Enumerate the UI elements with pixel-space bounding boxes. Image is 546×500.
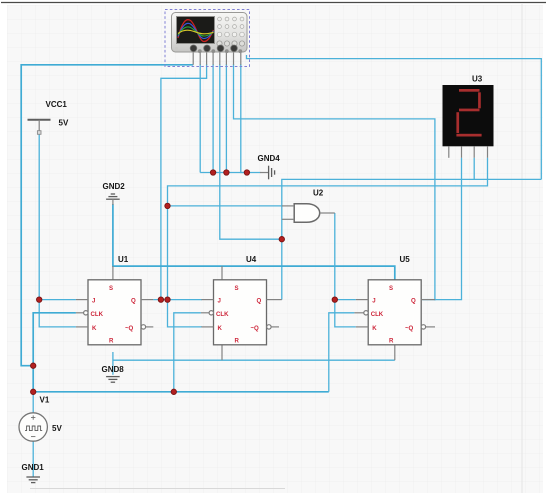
wire clock rail	[33, 391, 329, 393]
node U1 Q feed tap	[165, 297, 170, 302]
and gate U2	[282, 189, 335, 223]
wire U4 Q riser and line to U3 pin3	[282, 179, 542, 299]
power VCC1	[28, 100, 69, 134]
svg-text:5V: 5V	[59, 119, 69, 128]
node U2 input A tap	[165, 203, 170, 208]
wire U1 S stub	[112, 266, 114, 280]
svg-text:GND8: GND8	[102, 365, 125, 374]
wire U1 Q riser and line to U3 pin4	[168, 158, 488, 300]
wire U2 input A from node	[168, 205, 283, 207]
wire V1 bottom to GND1	[32, 442, 34, 477]
ground GND8	[102, 365, 125, 382]
wire U1 Q to U4 J	[153, 299, 202, 301]
ground GND4	[258, 154, 281, 179]
svg-text:J: J	[218, 298, 221, 305]
wire U4 S stub	[221, 266, 223, 280]
svg-text:U3: U3	[472, 75, 483, 84]
wire U2 output to U5 J	[335, 213, 356, 300]
wire S preset line from GND2 to U5 S	[113, 204, 395, 280]
wire scope pin8 down to ground row	[241, 64, 247, 173]
wire scope pin9 right side loop to QB line	[247, 55, 542, 179]
wire scope pin4 down to ground row	[212, 64, 214, 173]
wire scope pin1 to left border loop	[21, 65, 193, 366]
svg-text:U4: U4	[246, 255, 257, 264]
svg-text:V1: V1	[40, 396, 50, 405]
wire scope pin2 down to ground row	[199, 64, 201, 173]
svg-text:~Q: ~Q	[251, 325, 260, 332]
node U2 out to U5 J	[332, 297, 337, 302]
wire scope pin3 to U1 Q node	[161, 64, 207, 300]
wire U5 CLK riser	[329, 313, 355, 392]
svg-text:CLK: CLK	[91, 311, 104, 318]
wire U1 R down to GND8	[112, 352, 114, 375]
wire U5 J node down to U5 K	[335, 300, 356, 327]
svg-text:~Q: ~Q	[125, 325, 134, 332]
ground GND2	[103, 182, 126, 205]
wire ground row to GND4	[200, 172, 260, 174]
clock source V1	[19, 396, 62, 442]
wire U5 Q to riser	[422, 299, 436, 301]
wire scope pin5 to U4 Q riser	[220, 64, 282, 239]
svg-text:J: J	[372, 298, 375, 305]
ground GND1	[22, 463, 45, 483]
wire U5 R stub	[394, 345, 396, 360]
node U4 Q to scope	[279, 237, 284, 242]
svg-text:R: R	[389, 338, 394, 345]
svg-text:CLK: CLK	[216, 311, 229, 318]
node U4 CLK rail tap	[171, 389, 176, 394]
svg-text:J: J	[92, 298, 95, 305]
svg-text:U1: U1	[118, 255, 129, 264]
svg-text:K: K	[218, 325, 223, 332]
svg-text:U5: U5	[400, 255, 411, 264]
node VCC to U1 J	[37, 297, 42, 302]
svg-text:K: K	[372, 325, 377, 332]
svg-text:Q: Q	[257, 298, 262, 305]
node U1 Q scope tap	[158, 297, 163, 302]
flip-flop U5	[354, 255, 435, 345]
svg-text:R: R	[235, 338, 240, 345]
wire scope pin7 to U5 Q riser	[234, 64, 435, 300]
seven segment display U3	[443, 75, 494, 158]
wire V1 riser to U1 CLK	[33, 313, 76, 392]
svg-text:S: S	[389, 285, 393, 292]
wire V1 top stub	[32, 392, 34, 413]
node V1 clock rail	[31, 389, 36, 394]
svg-text:~Q: ~Q	[405, 325, 414, 332]
svg-text:Q: Q	[131, 298, 136, 305]
svg-text:S: S	[109, 285, 113, 292]
flip-flop U4	[201, 255, 282, 345]
svg-text:5V: 5V	[52, 424, 62, 433]
svg-text:GND1: GND1	[22, 463, 45, 472]
wire scope pin6 down to ground row	[225, 64, 227, 173]
wire U3 pin2 riser to U5 Q line	[434, 158, 462, 300]
svg-text:K: K	[92, 325, 97, 332]
wire node A down to U4 K	[168, 300, 203, 327]
svg-text:GND4: GND4	[258, 154, 281, 163]
svg-text:GND2: GND2	[103, 182, 126, 191]
oscilloscope XSC1	[165, 10, 250, 67]
node border loop join	[31, 363, 36, 368]
svg-text:VCC1: VCC1	[46, 100, 68, 109]
svg-text:Q: Q	[411, 298, 416, 305]
node scope gnd 1	[210, 170, 215, 175]
wire reset line R	[113, 359, 395, 361]
svg-text:S: S	[235, 285, 239, 292]
wire U4 CLK riser	[174, 313, 201, 392]
node scope gnd 2	[224, 170, 229, 175]
wire U3 pin3 riser	[473, 158, 475, 180]
wire VCC riser to U1 J and K	[39, 134, 76, 327]
flip-flop U1	[76, 255, 153, 345]
svg-text:R: R	[109, 338, 114, 345]
wire U4 R stub	[221, 345, 223, 360]
svg-text:CLK: CLK	[371, 311, 384, 318]
svg-text:U2: U2	[313, 189, 324, 198]
node scope gnd 3	[244, 170, 249, 175]
